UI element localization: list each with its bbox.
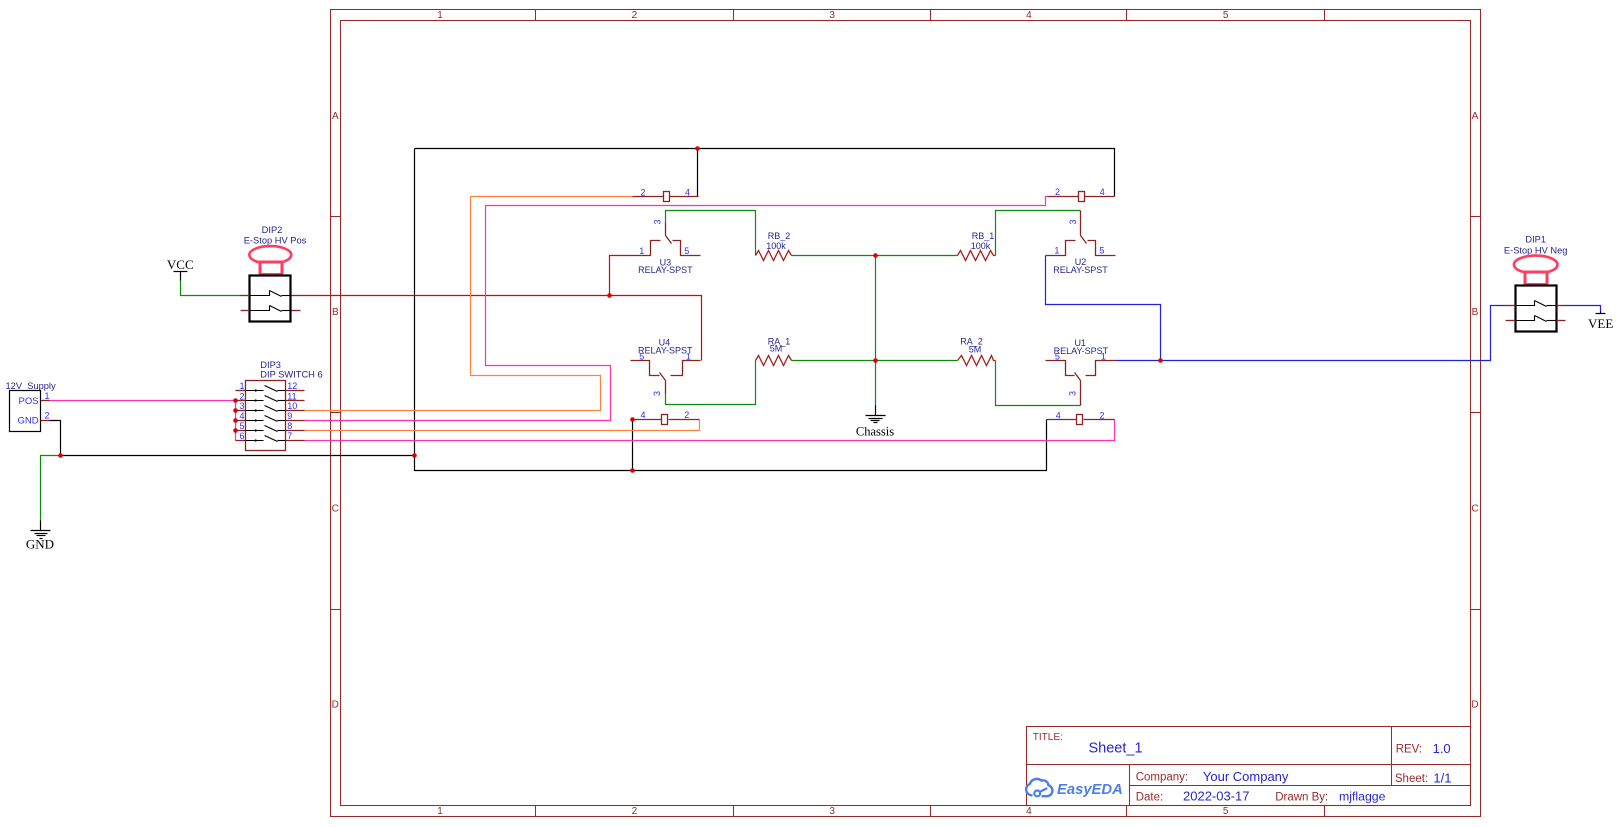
- relay U2 RELAY-SPST (contacts): [1046, 211, 1116, 275]
- junction: pink bus / DIP3 pin2: [233, 398, 238, 403]
- svg-text:10: 10: [287, 401, 297, 411]
- svg-text:1: 1: [239, 381, 244, 391]
- resistor RA_2 5M: [958, 337, 996, 366]
- svg-text:DIP2: DIP2: [262, 225, 283, 235]
- svg-text:Date:: Date:: [1136, 791, 1164, 803]
- chassis ground: [866, 406, 886, 423]
- svg-text:4: 4: [685, 187, 690, 197]
- svg-text:1: 1: [1054, 246, 1059, 256]
- svg-text:3: 3: [652, 391, 662, 396]
- svg-text:1: 1: [437, 806, 443, 817]
- svg-text:GND: GND: [17, 415, 38, 426]
- wire green chassis trunk: [875, 256, 877, 406]
- relay U4 RELAY-SPST (contacts): [631, 338, 701, 396]
- power flag VEE: [1588, 312, 1613, 332]
- svg-text:1/1: 1/1: [1433, 770, 1451, 785]
- svg-text:Chassis: Chassis: [856, 425, 894, 439]
- svg-text:E-Stop HV Neg: E-Stop HV Neg: [1504, 246, 1568, 256]
- junction: green RA net / chassis trunk: [873, 358, 878, 363]
- svg-text:5: 5: [1223, 806, 1229, 817]
- svg-text:TITLE:: TITLE:: [1033, 732, 1063, 743]
- power flag VCC: [167, 257, 194, 281]
- svg-text:B: B: [1472, 307, 1479, 318]
- relay U4 coil (pins 4,2): [633, 410, 700, 424]
- relay U3 coil (pins 2,4): [633, 187, 699, 201]
- svg-text:Sheet_1: Sheet_1: [1089, 741, 1143, 757]
- junction: black loop / U3 coil pin4: [695, 146, 700, 151]
- svg-text:2: 2: [640, 187, 645, 197]
- svg-text:D: D: [332, 700, 339, 711]
- svg-text:5: 5: [1099, 246, 1104, 256]
- wire green RA_2 to U1 pin3: [996, 361, 1081, 406]
- svg-text:5: 5: [239, 421, 244, 431]
- svg-text:Sheet:: Sheet:: [1395, 773, 1428, 785]
- DIP switch DIP3 "DIP SWITCH 6": [236, 360, 323, 451]
- svg-text:12: 12: [287, 381, 297, 391]
- svg-text:11: 11: [287, 391, 296, 401]
- junction: 12V GND / ground wire: [58, 453, 63, 458]
- svg-text:1: 1: [437, 10, 443, 21]
- wire green RB_1 to U2 pin3: [996, 211, 1081, 256]
- svg-text:2: 2: [632, 10, 638, 21]
- svg-text:EasyEDA: EasyEDA: [1057, 782, 1123, 798]
- svg-text:2: 2: [239, 391, 244, 401]
- svg-text:Drawn By:: Drawn By:: [1275, 791, 1328, 803]
- svg-text:8: 8: [287, 421, 292, 431]
- title block: [1027, 727, 1471, 806]
- svg-text:9: 9: [287, 411, 292, 421]
- wire blue U2 pin1 branch: [1046, 256, 1161, 361]
- svg-text:VEE: VEE: [1588, 316, 1613, 331]
- svg-text:5: 5: [684, 246, 689, 256]
- svg-text:3: 3: [239, 401, 244, 411]
- svg-text:C: C: [332, 503, 339, 514]
- wire pink DIP3 pin9 to U2 coil pin2: [305, 197, 1048, 421]
- wire blue DIP1 to VEE: [1566, 306, 1601, 312]
- svg-text:4: 4: [239, 411, 244, 421]
- svg-text:A: A: [332, 111, 339, 122]
- svg-text:5M: 5M: [969, 345, 982, 355]
- svg-text:2: 2: [45, 410, 50, 420]
- svg-text:Your Company: Your Company: [1203, 769, 1289, 784]
- svg-text:12V_Supply: 12V_Supply: [6, 381, 56, 391]
- svg-text:GND: GND: [26, 537, 54, 552]
- svg-text:RB_1: RB_1: [972, 231, 995, 241]
- svg-text:4: 4: [640, 410, 645, 420]
- ground GND: [31, 521, 51, 539]
- wire blue U1 pin1 to DIP1: [1116, 306, 1506, 361]
- wire orange DIP3 pin8 to U4 coil pin2: [305, 420, 700, 431]
- junction: pink bus / DIP3 pin5: [233, 428, 238, 433]
- svg-text:E-Stop HV Pos: E-Stop HV Pos: [244, 235, 307, 245]
- svg-text:2: 2: [1099, 410, 1104, 420]
- svg-text:2: 2: [684, 410, 689, 420]
- wire red DIP2 to U4 pin1: [301, 296, 702, 361]
- svg-text:A: A: [1472, 111, 1479, 122]
- svg-text:RELAY-SPST: RELAY-SPST: [1053, 265, 1108, 275]
- wire black loop top: U2/U3 coil supply: [415, 149, 1115, 197]
- relay U1 coil (pins 4,2): [1047, 410, 1115, 424]
- connector P1 12V_Supply: [6, 381, 56, 431]
- svg-text:4: 4: [1026, 10, 1032, 21]
- relay U2 coil (pins 2,4): [1048, 187, 1115, 201]
- junction: green RB net / chassis trunk: [873, 253, 878, 258]
- svg-text:1: 1: [639, 246, 644, 256]
- svg-text:Company:: Company:: [1136, 771, 1188, 783]
- svg-text:3: 3: [653, 219, 663, 224]
- svg-text:3: 3: [1068, 219, 1078, 224]
- svg-text:5M: 5M: [770, 344, 783, 354]
- svg-text:POS: POS: [19, 396, 39, 407]
- svg-text:B: B: [332, 307, 339, 318]
- svg-text:6: 6: [239, 431, 244, 441]
- svg-text:2: 2: [1055, 187, 1060, 197]
- svg-text:D: D: [1471, 700, 1478, 711]
- svg-text:4: 4: [1026, 806, 1032, 817]
- svg-text:mjflagge: mjflagge: [1339, 790, 1386, 804]
- svg-text:3: 3: [829, 806, 835, 817]
- resistor RA_1 5M: [756, 337, 792, 366]
- svg-text:C: C: [1471, 503, 1478, 514]
- svg-text:RB_2: RB_2: [768, 231, 791, 241]
- svg-text:4: 4: [1056, 410, 1061, 420]
- svg-text:VCC: VCC: [167, 257, 194, 272]
- resistor RB_1 100k: [958, 231, 996, 261]
- svg-text:RELAY-SPST: RELAY-SPST: [1054, 346, 1109, 356]
- wire green RB_2 to RB_1: [792, 255, 958, 257]
- svg-text:REV:: REV:: [1396, 744, 1422, 756]
- svg-text:2022-03-17: 2022-03-17: [1183, 789, 1250, 804]
- pushbutton DIP2 "E-Stop HV Pos": [241, 225, 307, 321]
- wire red branch to U3 pin1: [610, 256, 631, 296]
- wire green VCC to DIP2 pin: [181, 281, 242, 296]
- relay U1 RELAY-SPST (contacts): [1046, 338, 1116, 405]
- svg-text:4: 4: [1100, 187, 1105, 197]
- wire green GND stem: [41, 456, 61, 521]
- svg-text:7: 7: [287, 431, 292, 441]
- wire black loop left/bottom to U1 coil pin4: [415, 149, 1047, 471]
- svg-text:2: 2: [632, 806, 638, 817]
- wire green RA_1 to RA_2: [792, 360, 958, 362]
- wire black drop to U3 coil pin4: [697, 149, 699, 197]
- junction: black loop / GND supply wire: [412, 453, 417, 458]
- svg-text:5: 5: [1223, 10, 1229, 21]
- wire green U4 pin3 to RA_1: [666, 361, 756, 405]
- svg-text:RELAY-SPST: RELAY-SPST: [638, 265, 693, 275]
- junction: U4 coil pin4 / black drop: [630, 417, 635, 422]
- svg-text:RELAY-SPST: RELAY-SPST: [638, 346, 693, 356]
- svg-text:100k: 100k: [971, 241, 991, 251]
- junction: black loop bottom / U4 coil drop: [630, 468, 635, 473]
- svg-text:1.0: 1.0: [1433, 741, 1451, 756]
- junction: pink bus / DIP3 pin3: [233, 408, 238, 413]
- wire black U4 coil pin4 to bottom loop: [632, 420, 634, 471]
- svg-text:DIP SWITCH 6: DIP SWITCH 6: [260, 370, 322, 380]
- junction: red wire / U3 pin1 branch: [607, 293, 612, 298]
- svg-text:100k: 100k: [766, 241, 786, 251]
- junction: pink bus / DIP3 pin4: [233, 418, 238, 423]
- wire pink POS to DIP3 pins 2-6: [50, 401, 236, 441]
- junction: blue net U1/U2: [1158, 358, 1163, 363]
- EasyEDA logo: [1026, 779, 1123, 798]
- wire black 12V GND pin to loop: [50, 421, 415, 456]
- svg-text:3: 3: [829, 10, 835, 21]
- wire pink DIP3 pin7 to U1 coil pin2: [305, 420, 1115, 441]
- wire orange DIP3 pin10 to U3 coil pin2: [305, 197, 633, 411]
- svg-text:DIP3: DIP3: [260, 360, 281, 370]
- pushbutton DIP1 "E-Stop HV Neg": [1504, 235, 1568, 332]
- svg-text:1: 1: [45, 391, 50, 401]
- svg-text:3: 3: [1067, 391, 1077, 396]
- svg-text:DIP1: DIP1: [1525, 235, 1546, 245]
- resistor RB_2 100k: [756, 231, 792, 261]
- wire green U3 pin3 to RB_2: [666, 211, 756, 256]
- relay U3 RELAY-SPST (contacts): [631, 219, 701, 275]
